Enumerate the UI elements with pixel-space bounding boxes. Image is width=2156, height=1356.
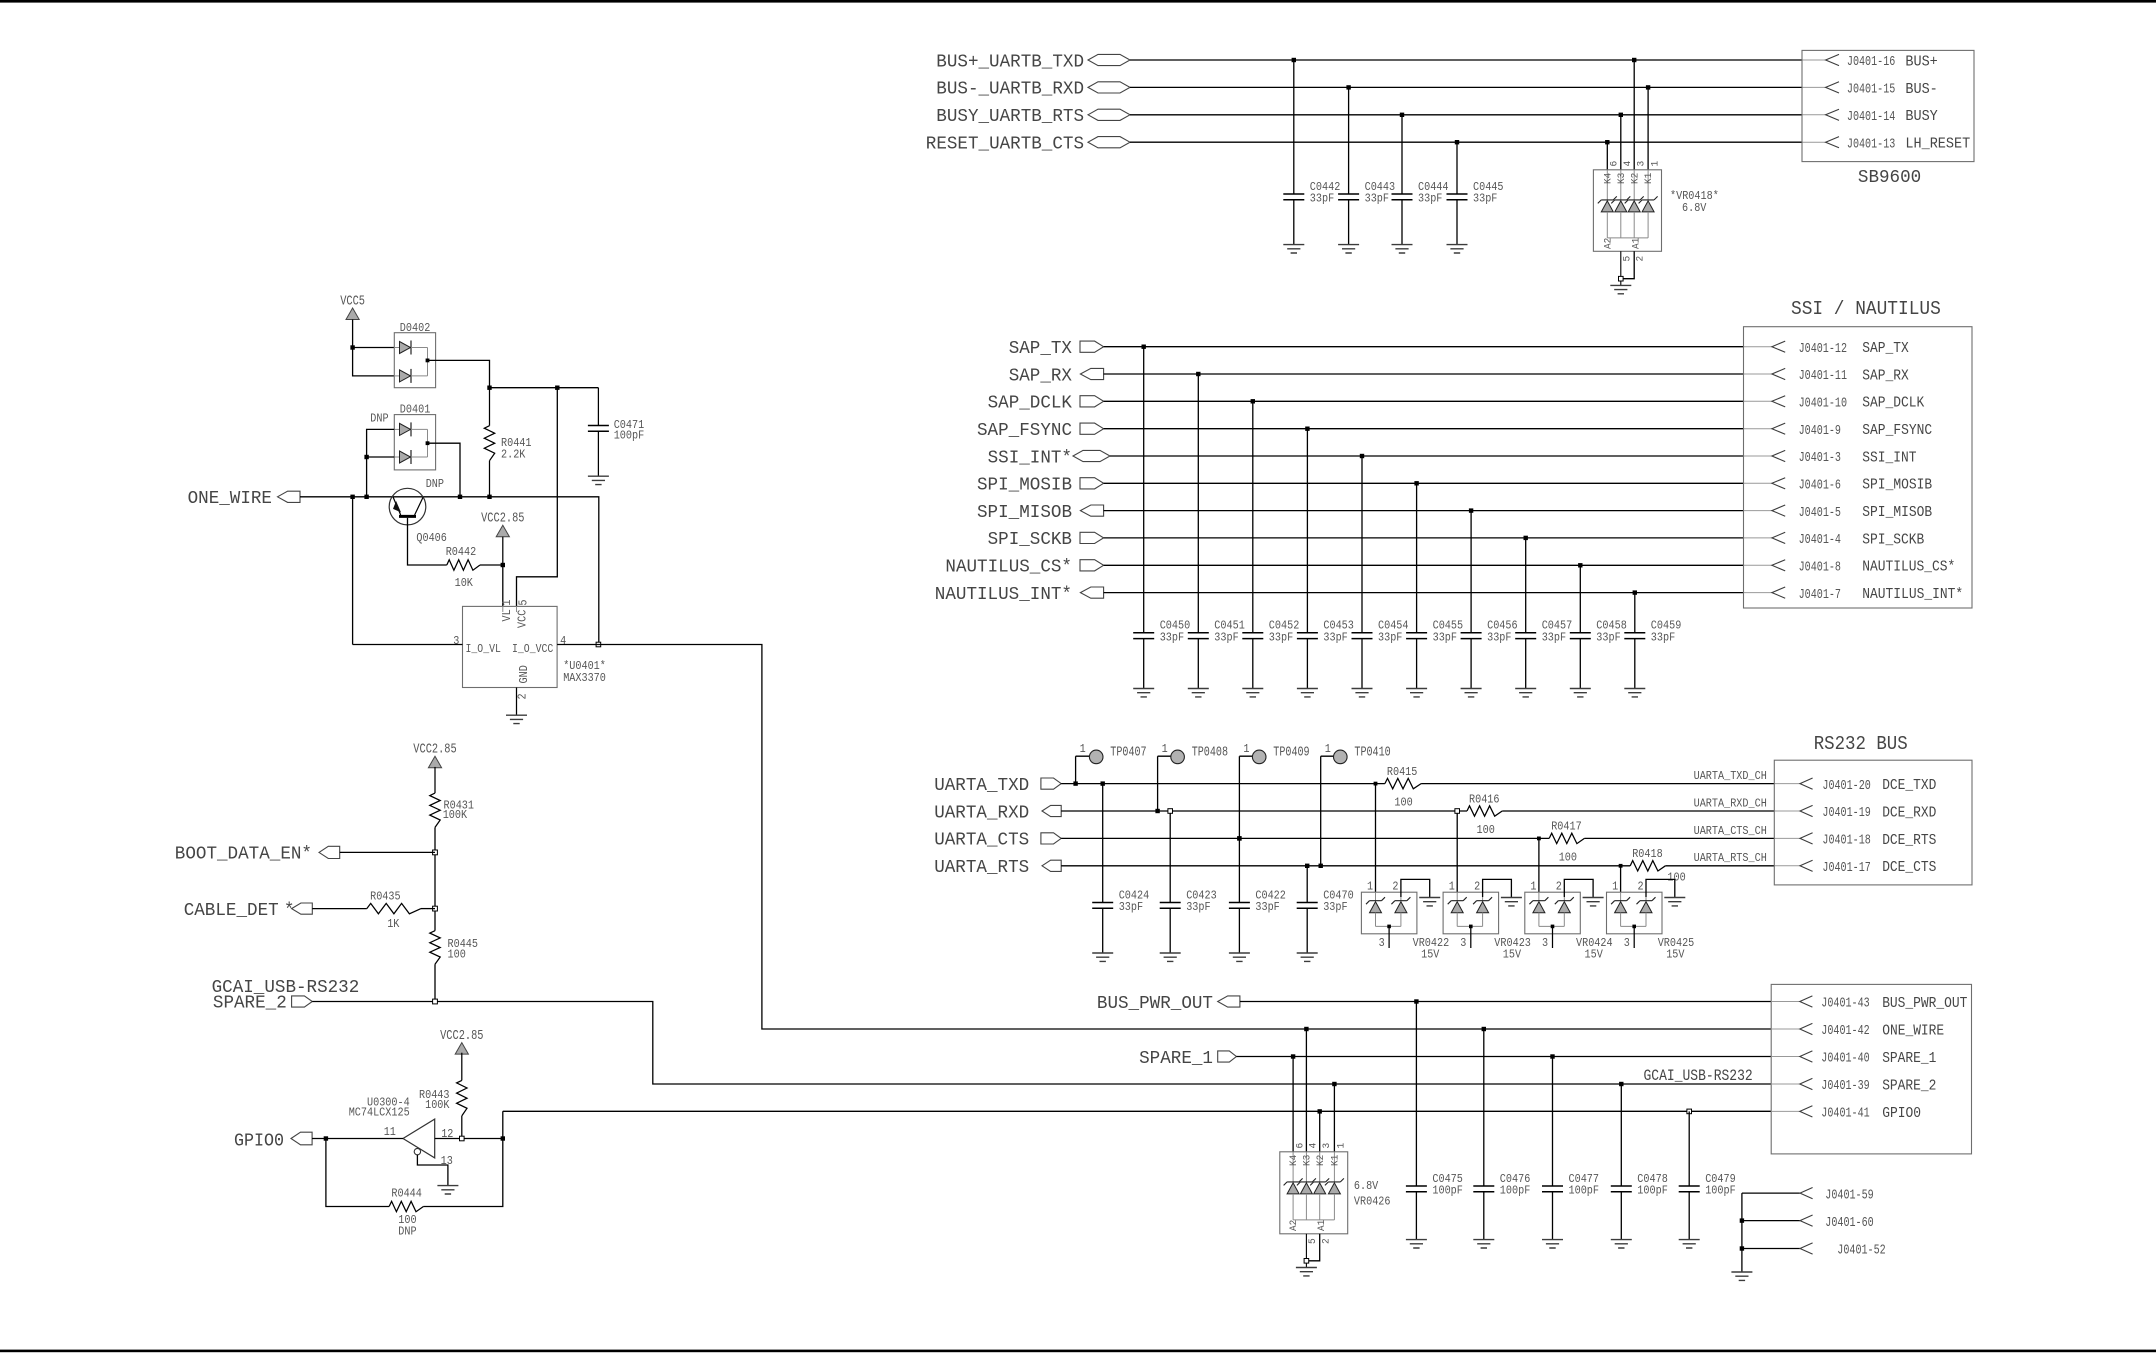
wire SAP_DCLK <box>1104 400 1744 402</box>
capacitor C0450 33pF <box>1133 633 1154 639</box>
wire UARTA_RXD_CH <box>1502 810 1774 812</box>
resistor R0441 2.2K <box>489 388 491 426</box>
svg-text:3: 3 <box>1624 936 1630 950</box>
ground <box>1583 898 1604 906</box>
ground <box>1133 689 1154 697</box>
wire VR0425 pin 2 to ground <box>1646 879 1675 897</box>
svg-text:VL: VL <box>500 609 514 621</box>
port UARTA_RTS <box>1042 860 1061 871</box>
svg-text:SAP_DCLK: SAP_DCLK <box>988 394 1073 414</box>
pin J0401-20 DCE_TXD <box>1800 778 1813 789</box>
svg-text:13: 13 <box>441 1154 453 1168</box>
svg-text:R0417: R0417 <box>1551 820 1582 834</box>
ground <box>1542 1240 1563 1248</box>
svg-text:5: 5 <box>1621 256 1633 262</box>
svg-text:1: 1 <box>1325 742 1331 756</box>
port RESET_UARTB_CTS <box>1088 137 1130 148</box>
svg-text:33pF: 33pF <box>1651 630 1675 644</box>
wire C0470 drop <box>1306 866 1308 953</box>
svg-text:VR0426: VR0426 <box>1354 1194 1391 1208</box>
wire C0457 drop <box>1525 538 1527 689</box>
svg-text:RESET_UARTB_CTS: RESET_UARTB_CTS <box>926 135 1084 155</box>
ground <box>1092 953 1113 961</box>
resistor R0431 100K <box>430 793 440 827</box>
pin J0401-4 SPI_SCKB <box>1772 532 1785 543</box>
wire VR0423 pin 2 to ground <box>1483 879 1512 897</box>
connector J0401 bottom box <box>1771 984 1971 1154</box>
svg-text:15V: 15V <box>1421 947 1440 961</box>
svg-text:R0418: R0418 <box>1632 847 1663 861</box>
svg-text:DCE_RXD: DCE_RXD <box>1882 804 1936 821</box>
capacitor C0455 33pF <box>1406 633 1427 639</box>
svg-text:BUS+: BUS+ <box>1905 53 1937 70</box>
wire SPARE_1 <box>1236 1056 1771 1058</box>
wire C0458 drop <box>1579 565 1581 688</box>
svg-text:10K: 10K <box>455 576 474 590</box>
wire VR0418 pin K1 to BUS- <box>1647 87 1649 169</box>
wire R0443 bottom <box>461 1116 463 1139</box>
svg-text:100pF: 100pF <box>1705 1184 1736 1198</box>
svg-text:100K: 100K <box>443 808 468 822</box>
svg-text:J0401-6: J0401-6 <box>1799 479 1841 494</box>
zener array VR0425 15V <box>1607 892 1663 934</box>
port BUS-_UARTB_RXD <box>1088 82 1130 93</box>
wire SPI_MOSIB <box>1104 482 1744 484</box>
wire C0450 drop <box>1143 347 1145 689</box>
svg-text:UARTA_TXD: UARTA_TXD <box>934 776 1029 796</box>
svg-text:K1: K1 <box>1330 1155 1342 1166</box>
capacitor C0443 33pF <box>1338 194 1359 200</box>
wire buffer input net to GPIO0 connector <box>423 1111 1771 1206</box>
wire SAP_FSYNC <box>1104 428 1744 430</box>
wire SAP_TX <box>1104 346 1744 348</box>
port BUSY_UARTB_RTS <box>1088 109 1130 120</box>
ground <box>1297 953 1318 961</box>
svg-text:1: 1 <box>1612 879 1618 893</box>
svg-text:K2: K2 <box>1629 173 1641 184</box>
svg-text:J0401-11: J0401-11 <box>1799 369 1847 384</box>
ground <box>1611 1240 1632 1248</box>
svg-text:1: 1 <box>1530 879 1536 893</box>
wire buffer enable pin 13 to ground <box>417 1155 448 1186</box>
svg-text:R0415: R0415 <box>1387 765 1418 779</box>
svg-text:ONE_WIRE: ONE_WIRE <box>188 489 272 509</box>
zener array VR0426 6.8V <box>1280 1152 1348 1234</box>
wire VCC pin 5 route <box>517 388 558 607</box>
svg-text:33pF: 33pF <box>1323 900 1347 914</box>
capacitor C0454 33pF <box>1352 633 1373 639</box>
svg-text:4: 4 <box>1308 1143 1320 1149</box>
wire VR0418 pin K2 to BUS+ <box>1633 60 1635 170</box>
ground <box>1461 689 1482 697</box>
wire NAUTILUS_INT* <box>1104 592 1744 594</box>
wire C0422 drop <box>1238 838 1240 953</box>
wire BUS+_UARTB_TXD <box>1130 59 1802 61</box>
zener array VR0422 15V <box>1361 892 1417 934</box>
ground <box>1731 1272 1752 1280</box>
svg-text:6: 6 <box>1609 161 1621 167</box>
svg-text:A2: A2 <box>1602 238 1614 249</box>
svg-text:VCC: VCC <box>515 610 529 628</box>
pin J0401-5 SPI_MISOB <box>1772 505 1785 516</box>
wire TP0410 stub <box>1321 756 1334 866</box>
svg-text:MAX3370: MAX3370 <box>563 671 606 685</box>
wire TP0408 stub <box>1158 756 1171 811</box>
svg-text:SAP_FSYNC: SAP_FSYNC <box>1862 422 1932 439</box>
wire D0401 input <box>367 429 395 496</box>
resistor R0445 100 <box>430 931 440 965</box>
capacitor C0458 33pF <box>1570 633 1591 639</box>
wire C0451 drop <box>1197 374 1199 689</box>
svg-text:4: 4 <box>560 634 566 648</box>
svg-text:BUS-: BUS- <box>1905 81 1937 98</box>
diode pair D0402 <box>394 333 435 388</box>
svg-text:RS232 BUS: RS232 BUS <box>1814 733 1908 755</box>
svg-text:33pF: 33pF <box>1542 630 1566 644</box>
svg-text:DNP: DNP <box>398 1224 416 1238</box>
svg-text:J0401-15: J0401-15 <box>1847 83 1895 98</box>
pin J0401-9 SAP_FSYNC <box>1772 423 1785 434</box>
pin J0401-8 NAUTILUS_CS* <box>1772 560 1785 571</box>
svg-text:MC74LCX125: MC74LCX125 <box>349 1106 410 1120</box>
connector J0401 SB9600 box <box>1802 50 1974 161</box>
svg-text:TP0407: TP0407 <box>1110 746 1146 761</box>
wire VR0426 pin K2 drop <box>1319 1111 1321 1151</box>
resistor R0416 100 <box>1467 806 1502 816</box>
svg-text:BUSY_UARTB_RTS: BUSY_UARTB_RTS <box>936 107 1084 127</box>
svg-text:GND: GND <box>517 665 531 683</box>
pin J0401-39 SPARE_2 <box>1771 1083 1800 1085</box>
ground <box>1515 689 1536 697</box>
svg-text:100: 100 <box>1477 823 1495 837</box>
ground <box>1297 689 1318 697</box>
power VCC2.85 <box>428 756 441 768</box>
svg-text:100pF: 100pF <box>1637 1184 1668 1198</box>
port SPARE_1 <box>1218 1051 1237 1062</box>
connector J0401 SSI box <box>1744 327 1973 608</box>
wire R0431 bottom <box>434 827 436 930</box>
svg-text:J0401-40: J0401-40 <box>1821 1052 1869 1067</box>
svg-text:D0402: D0402 <box>400 321 431 335</box>
svg-text:3: 3 <box>453 634 459 648</box>
svg-text:DNP: DNP <box>426 477 444 491</box>
wire J0401-59/60/52 bus <box>1742 1193 1800 1272</box>
svg-text:1: 1 <box>1080 742 1086 756</box>
svg-text:6.8V: 6.8V <box>1682 201 1707 215</box>
wire U0401 pin 3 I_O_VL <box>353 497 463 645</box>
wire C0477 drop <box>1552 1057 1554 1240</box>
svg-text:UARTA_RTS: UARTA_RTS <box>934 858 1029 878</box>
svg-text:J0401-39: J0401-39 <box>1821 1079 1869 1094</box>
wire VR0418 pin K4 to RESET <box>1606 142 1608 170</box>
wire VR0423 pin 1 <box>1456 811 1458 892</box>
svg-text:J0401-10: J0401-10 <box>1799 397 1847 412</box>
port CABLE_DET* <box>292 903 313 914</box>
ground <box>1406 689 1427 697</box>
pin J0401-3 SSI_INT <box>1772 450 1785 461</box>
svg-text:1: 1 <box>1367 879 1373 893</box>
wire C0459 drop <box>1634 593 1636 689</box>
port BOOT_DATA_EN* <box>319 846 340 858</box>
svg-text:J0401-14: J0401-14 <box>1847 110 1895 125</box>
svg-text:UARTA_CTS_CH: UARTA_CTS_CH <box>1694 824 1767 838</box>
svg-text:33pF: 33pF <box>1269 630 1293 644</box>
svg-text:J0401-9: J0401-9 <box>1799 424 1841 439</box>
svg-text:*: * <box>284 901 295 921</box>
ground <box>1188 689 1209 697</box>
ground <box>1570 689 1591 697</box>
svg-text:J0401-52: J0401-52 <box>1837 1244 1885 1259</box>
pin J0401-43 BUS_PWR_OUT <box>1771 1001 1800 1003</box>
svg-text:SPARE_2: SPARE_2 <box>213 993 287 1013</box>
svg-text:2: 2 <box>1392 879 1398 893</box>
svg-text:15V: 15V <box>1666 947 1685 961</box>
wire VR0422 pin 2 to ground <box>1401 879 1430 897</box>
resistor R0415 100 <box>1385 778 1421 788</box>
svg-text:UARTA_RTS_CH: UARTA_RTS_CH <box>1694 851 1767 865</box>
resistor R0435 1K <box>367 903 421 913</box>
wire VR0426 pin 2 <box>1308 1234 1320 1261</box>
wire C0444 drop <box>1401 115 1403 245</box>
resistor R0442 10K <box>447 560 480 570</box>
svg-text:33pF: 33pF <box>1323 630 1347 644</box>
capacitor C0459 33pF <box>1624 633 1645 639</box>
pin J0401-52 <box>1800 1243 1813 1254</box>
IC U0401 MAX3370 <box>463 606 558 687</box>
svg-text:1: 1 <box>1243 742 1249 756</box>
svg-text:J0401-13: J0401-13 <box>1847 137 1895 152</box>
capacitor C0457 33pF <box>1515 633 1536 639</box>
wire C0479 drop <box>1688 1111 1690 1239</box>
wire RESET_UARTB_CTS <box>1130 141 1802 143</box>
capacitor C0424 33pF <box>1092 903 1113 909</box>
pin J0401-18 DCE_RTS <box>1800 833 1813 844</box>
top frame bar <box>0 0 2156 3</box>
svg-text:3: 3 <box>1542 936 1548 950</box>
svg-text:TP0410: TP0410 <box>1354 746 1390 761</box>
svg-text:J0401-19: J0401-19 <box>1822 806 1870 821</box>
zener array VR0424 15V <box>1525 892 1581 934</box>
capacitor C0479 100pF <box>1679 1186 1700 1192</box>
connector J0401 RS232 box <box>1774 760 1972 885</box>
svg-text:SPI_MOSIB: SPI_MOSIB <box>977 476 1072 496</box>
ground <box>1296 1268 1317 1276</box>
svg-text:VCC5: VCC5 <box>340 295 365 310</box>
svg-text:R0444: R0444 <box>391 1187 422 1201</box>
zener array VR0418 6.8V <box>1593 170 1661 252</box>
svg-text:1: 1 <box>1449 879 1455 893</box>
svg-text:K3: K3 <box>1302 1155 1314 1166</box>
svg-text:SPI_MISOB: SPI_MISOB <box>1862 504 1932 521</box>
svg-text:K3: K3 <box>1616 173 1628 184</box>
pin J0401-7 NAUTILUS_INT* <box>1772 587 1785 598</box>
svg-text:GCAI_USB-RS232: GCAI_USB-RS232 <box>1644 1067 1753 1085</box>
capacitor C0444 33pF <box>1392 194 1413 200</box>
svg-text:K2: K2 <box>1315 1155 1327 1166</box>
svg-text:SPI_MOSIB: SPI_MOSIB <box>1862 477 1932 494</box>
svg-text:J0401-43: J0401-43 <box>1821 997 1869 1012</box>
svg-text:SPARE_2: SPARE_2 <box>1882 1077 1936 1094</box>
capacitor C0442 33pF <box>1283 194 1304 200</box>
wire U0401 pin 4 I_O_VCC to ONE_WIRE connector <box>557 645 1771 1030</box>
svg-text:J0401-4: J0401-4 <box>1799 533 1841 548</box>
capacitor C0453 33pF <box>1297 633 1318 639</box>
svg-text:VCC2.85: VCC2.85 <box>440 1029 483 1044</box>
svg-text:2: 2 <box>1320 1238 1332 1244</box>
wire D0402 output rail <box>428 360 599 387</box>
svg-text:DCE_TXD: DCE_TXD <box>1882 777 1936 794</box>
svg-text:33pF: 33pF <box>1418 192 1442 206</box>
wire VR0426 pin K1 drop <box>1333 1084 1335 1152</box>
ground <box>1160 953 1181 961</box>
svg-text:100pF: 100pF <box>614 428 645 442</box>
svg-text:R0435: R0435 <box>370 889 401 903</box>
resistor R0417 100 <box>1549 833 1584 843</box>
pin J0401-10 SAP_DCLK <box>1772 396 1785 407</box>
power VCC2.85 <box>496 525 509 537</box>
svg-text:LH_RESET: LH_RESET <box>1905 136 1970 153</box>
svg-text:UARTA_TXD_CH: UARTA_TXD_CH <box>1694 769 1767 783</box>
capacitor C0423 33pF <box>1160 903 1181 909</box>
ground <box>1473 1240 1494 1248</box>
port BUS_PWR_OUT <box>1218 996 1240 1007</box>
svg-text:11: 11 <box>384 1125 396 1139</box>
pin J0401-16 BUS+ <box>1826 54 1839 65</box>
ground <box>1338 245 1359 253</box>
svg-text:TP0408: TP0408 <box>1192 746 1228 761</box>
svg-text:33pF: 33pF <box>1310 192 1334 206</box>
wire C0454 drop <box>1361 456 1363 689</box>
svg-text:1: 1 <box>1649 161 1661 167</box>
svg-text:3: 3 <box>1321 1143 1333 1149</box>
svg-text:1K: 1K <box>387 917 400 931</box>
capacitor C0478 100pF <box>1611 1186 1632 1192</box>
testpoint TP0409 <box>1252 750 1266 764</box>
pin J0401-42 ONE_WIRE <box>1771 1028 1800 1030</box>
capacitor C0445 33pF <box>1447 194 1468 200</box>
svg-text:VCC2.85: VCC2.85 <box>413 743 456 758</box>
svg-text:SAP_TX: SAP_TX <box>1009 339 1072 359</box>
svg-text:5: 5 <box>516 600 530 606</box>
port UARTA_TXD <box>1041 778 1061 789</box>
testpoint TP0407 <box>1089 750 1103 764</box>
wire Q0406 base to R0442 <box>408 518 447 565</box>
svg-text:BUSY: BUSY <box>1905 108 1937 125</box>
port SAP_RX <box>1080 368 1103 379</box>
wire VR0422 pin 3 <box>1388 926 1390 948</box>
port NAUTILUS_INT* <box>1080 587 1103 598</box>
wire BUS_PWR_OUT <box>1240 1001 1771 1003</box>
wire UARTA_RTS_CH <box>1665 865 1774 867</box>
capacitor C0476 100pF <box>1473 1186 1494 1192</box>
port SPI_MOSIB <box>1080 478 1104 489</box>
capacitor C0422 33pF <box>1229 903 1250 909</box>
svg-text:SPI_MISOB: SPI_MISOB <box>977 503 1072 523</box>
svg-text:J0401-8: J0401-8 <box>1799 561 1841 576</box>
svg-text:3: 3 <box>1460 936 1466 950</box>
svg-text:NAUTILUS_INT*: NAUTILUS_INT* <box>935 585 1072 605</box>
wire SSI_INT* <box>1110 455 1744 457</box>
pin J0401-13 LH_RESET <box>1826 137 1839 148</box>
svg-text:5: 5 <box>1307 1238 1319 1244</box>
capacitor C0470 33pF <box>1297 903 1318 909</box>
power VCC2.85 <box>455 1043 468 1055</box>
svg-text:SPARE_1: SPARE_1 <box>1882 1050 1936 1067</box>
resistor R0418 100 <box>1630 861 1665 871</box>
wire R0435 to node <box>421 908 435 910</box>
svg-text:SSI / NAUTILUS: SSI / NAUTILUS <box>1791 298 1941 320</box>
svg-text:1: 1 <box>1336 1143 1348 1149</box>
svg-text:BUS-_UARTB_RXD: BUS-_UARTB_RXD <box>936 80 1084 100</box>
port UARTA_CTS <box>1041 833 1061 844</box>
wire UARTA_RXD <box>1061 810 1467 812</box>
ground <box>1447 245 1468 253</box>
svg-text:J0401-16: J0401-16 <box>1847 55 1895 70</box>
svg-text:33pF: 33pF <box>1214 630 1238 644</box>
svg-text:VCC2.85: VCC2.85 <box>481 512 524 527</box>
wire BUSY_UARTB_RTS <box>1130 114 1802 116</box>
wire C0456 drop <box>1470 511 1472 689</box>
svg-text:33pF: 33pF <box>1596 630 1620 644</box>
pin J0401-59 <box>1800 1188 1813 1199</box>
ground <box>1664 898 1685 906</box>
ground <box>1501 898 1522 906</box>
svg-text:6.8V: 6.8V <box>1354 1179 1379 1193</box>
svg-text:Q0406: Q0406 <box>416 531 447 545</box>
svg-text:K1: K1 <box>1643 173 1655 184</box>
port SAP_DCLK <box>1080 396 1104 407</box>
svg-text:D0401: D0401 <box>400 403 431 417</box>
svg-text:J0401-7: J0401-7 <box>1799 588 1841 603</box>
svg-text:33pF: 33pF <box>1487 630 1511 644</box>
ground <box>1610 285 1631 293</box>
wire UARTA_CTS_CH <box>1584 837 1774 839</box>
wire SPI_MISOB <box>1104 510 1744 512</box>
svg-text:3: 3 <box>1379 936 1385 950</box>
svg-text:100: 100 <box>1667 870 1685 884</box>
capacitor C0451 33pF <box>1188 633 1209 639</box>
svg-text:33pF: 33pF <box>1433 630 1457 644</box>
svg-text:3: 3 <box>1636 161 1648 167</box>
ground <box>1242 689 1263 697</box>
wire VR0426 pin K3 drop <box>1305 1029 1307 1152</box>
svg-text:1: 1 <box>1162 742 1168 756</box>
wire UARTA_CTS <box>1061 837 1549 839</box>
port SAP_TX <box>1080 341 1104 352</box>
bottom frame bar <box>0 1350 2156 1353</box>
wire C0452 drop <box>1252 401 1254 688</box>
wire UARTA_TXD_CH <box>1421 783 1774 785</box>
port UARTA_RXD <box>1042 805 1061 816</box>
svg-text:J0401-59: J0401-59 <box>1825 1188 1873 1203</box>
wire R0445 bottom <box>434 964 436 1001</box>
pin J0401-14 BUSY <box>1826 109 1839 120</box>
wire VR0418 pin K3 to BUSY <box>1620 115 1622 170</box>
svg-text:6: 6 <box>1294 1143 1306 1149</box>
svg-text:J0401-20: J0401-20 <box>1822 779 1870 794</box>
wire VR0418 pin 2 <box>1622 251 1634 278</box>
svg-text:BUS_PWR_OUT: BUS_PWR_OUT <box>1882 995 1967 1012</box>
svg-text:UARTA_CTS: UARTA_CTS <box>934 831 1029 851</box>
svg-text:2: 2 <box>1638 879 1644 893</box>
port SAP_FSYNC <box>1080 423 1104 434</box>
wire D0401 output <box>428 443 461 497</box>
svg-text:A2: A2 <box>1288 1220 1300 1231</box>
svg-text:UARTA_RXD: UARTA_RXD <box>934 803 1029 823</box>
wire VR0424 pin 2 to ground <box>1564 879 1593 897</box>
svg-text:SSI_INT: SSI_INT <box>1862 449 1916 466</box>
port SPARE_2 <box>292 996 313 1007</box>
